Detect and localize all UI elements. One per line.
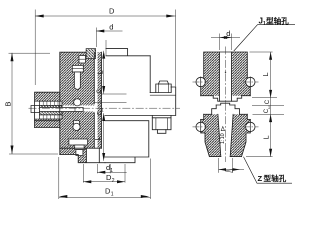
svg-text:L: L bbox=[261, 72, 270, 76]
svg-text:d: d bbox=[226, 29, 230, 38]
svg-text:L: L bbox=[95, 70, 104, 74]
svg-text:D: D bbox=[109, 7, 115, 16]
svg-text:型轴孔: 型轴孔 bbox=[264, 173, 287, 183]
svg-text:C: C bbox=[97, 89, 103, 94]
svg-text:1:10: 1:10 bbox=[220, 133, 226, 144]
svg-text:2: 2 bbox=[112, 178, 115, 184]
svg-text:C: C bbox=[265, 99, 271, 104]
svg-text:L: L bbox=[261, 135, 270, 139]
svg-text:d: d bbox=[109, 23, 113, 32]
svg-text:Z: Z bbox=[258, 174, 263, 183]
svg-text:型轴孔: 型轴孔 bbox=[266, 16, 289, 26]
svg-text:1: 1 bbox=[111, 191, 114, 197]
svg-text:L: L bbox=[93, 136, 102, 140]
svg-text:B: B bbox=[4, 101, 13, 106]
